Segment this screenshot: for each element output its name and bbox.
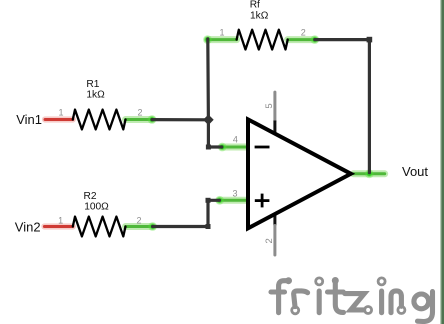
resistor R2 leads pin1 red / pin2 green with terminal dot bbox=[44, 222, 157, 231]
svg-text:1: 1 bbox=[58, 215, 63, 225]
bendpoint at pin3 elbow bbox=[206, 198, 211, 203]
bendpoint at pin4 elbow bbox=[206, 145, 211, 150]
svg-text:R2: R2 bbox=[84, 191, 97, 202]
resistor R1 leads pin1 red / pin2 green with terminal dot bbox=[45, 115, 156, 124]
wire: Rf pin2 right then down to output bbox=[315, 40, 370, 173]
svg-text:Rf: Rf bbox=[250, 0, 260, 11]
svg-text:2: 2 bbox=[301, 27, 306, 37]
logo letter g bbox=[414, 294, 429, 309]
resistor R1 zigzag bbox=[73, 110, 126, 130]
resistor Rf leads pin1/pin2 with terminal dots bbox=[203, 35, 319, 44]
wire: R1 pin2 to junction bbox=[152, 118, 208, 121]
bendpoint at top-right corner bbox=[367, 37, 373, 43]
wire: R2 pin2 right then up to op-amp pin 3 bbox=[153, 200, 220, 226]
svg-text:1kΩ: 1kΩ bbox=[86, 89, 105, 100]
resistor Rf zigzag bbox=[237, 30, 288, 50]
logo letter f bbox=[279, 281, 287, 313]
svg-text:100Ω: 100Ω bbox=[84, 202, 109, 213]
svg-text:1: 1 bbox=[58, 108, 63, 118]
op-amp U1 pin 3 lead (non-inverting input) with terminal dot bbox=[215, 196, 249, 205]
op-amp U1 triangle body bbox=[248, 119, 351, 228]
op-amp U1 pin 2 (bottom power) bbox=[273, 214, 276, 255]
svg-text:Vin1: Vin1 bbox=[16, 112, 42, 127]
junction node (diamond) bbox=[203, 115, 214, 126]
resistor R2 zigzag bbox=[73, 217, 126, 237]
svg-text:5: 5 bbox=[264, 103, 275, 108]
logo letter i (first) bbox=[317, 291, 322, 313]
svg-text:2: 2 bbox=[264, 238, 275, 243]
window edge (green border at right) bbox=[441, 0, 444, 324]
svg-text:2: 2 bbox=[136, 215, 141, 225]
svg-text:Vin2: Vin2 bbox=[15, 219, 41, 234]
op-amp U1 pin 4 lead (inverting input) with terminal dot bbox=[218, 143, 250, 152]
svg-text:4: 4 bbox=[233, 135, 238, 145]
op-amp inverting input minus symbol bbox=[255, 146, 270, 149]
wire: Rf pin1 down to junction bbox=[206, 39, 210, 120]
bendpoint at lower corner bbox=[206, 224, 211, 229]
op-amp U1 output lead with terminal dot bbox=[354, 169, 385, 178]
svg-text:1kΩ: 1kΩ bbox=[250, 10, 269, 21]
svg-text:2: 2 bbox=[137, 108, 142, 118]
logo letter z bbox=[345, 294, 365, 310]
svg-text:3: 3 bbox=[232, 188, 237, 198]
op-amp U1 pin 5 (top power) bbox=[273, 92, 276, 133]
logo letter t bbox=[335, 281, 343, 312]
op-amp non-inverting input plus symbol bbox=[255, 194, 270, 208]
fritzing watermark logo bbox=[271, 278, 433, 322]
logo letter n bbox=[391, 291, 401, 313]
wire: junction down and right to op-amp pin 4 bbox=[208, 120, 221, 147]
svg-text:1: 1 bbox=[219, 27, 224, 37]
svg-text:Vout: Vout bbox=[402, 164, 428, 179]
logo letter i (second) bbox=[379, 291, 384, 313]
logo letter r bbox=[294, 291, 308, 307]
